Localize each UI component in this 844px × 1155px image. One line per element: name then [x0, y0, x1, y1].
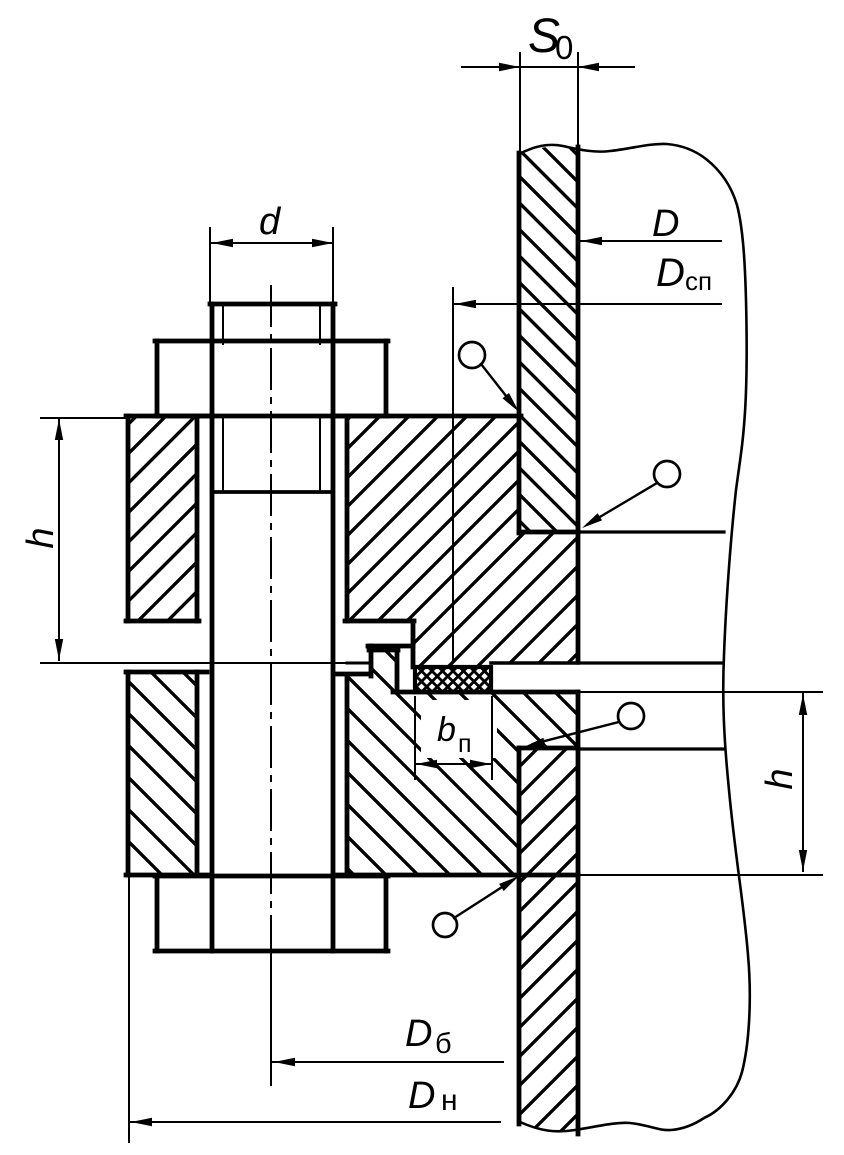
svg-text:b: b: [437, 711, 456, 749]
lower pipe wall outline: [517, 748, 522, 1124]
svg-text:сп: сп: [685, 266, 712, 296]
upper pipe wall outline: [517, 153, 522, 533]
svg-text:б: б: [435, 1028, 452, 1060]
break line (right): [519, 144, 750, 1118]
lower flange ring (left column), section hatch: [0, 457, 844, 1155]
dimension S0: [519, 53, 521, 150]
dimension h (lower flange): [802, 693, 804, 871]
bolt centerline: [270, 285, 272, 1085]
svg-text:п: п: [458, 730, 472, 758]
dimension b_p (gasket width): [421, 700, 497, 758]
upper nut: [155, 341, 160, 416]
svg-text:d: d: [259, 201, 282, 243]
svg-text:h: h: [20, 527, 62, 548]
svg-text:D: D: [656, 251, 685, 295]
callout balloon 4 (lower pipe-to-flange weld): [433, 913, 457, 937]
svg-text:h: h: [759, 768, 801, 789]
svg-text:D: D: [652, 203, 679, 245]
svg-text:0: 0: [555, 29, 573, 66]
lower nut: [155, 876, 160, 951]
dimension d: [209, 228, 211, 302]
callout balloon 1 (upper pipe-to-flange weld): [459, 342, 485, 368]
svg-text:D: D: [408, 1075, 435, 1117]
svg-text:н: н: [441, 1084, 458, 1117]
svg-text:D: D: [405, 1013, 432, 1055]
callout balloon 3 (pipe end seat, lower): [618, 703, 644, 729]
dimension h (upper flange): [41, 417, 128, 419]
stud thread lines: [222, 306, 224, 344]
dimension D: [580, 240, 721, 242]
stud (bolt): [212, 304, 333, 951]
dimension D_b (bolt circle): [270, 955, 272, 1085]
joint plane thin line across bolt hole: [41, 662, 347, 664]
lower flange outline: [126, 672, 131, 875]
joint plane line over stud: [41, 662, 347, 664]
callout balloon 2 (pipe end seat, upper): [654, 461, 680, 487]
dimension D_n (flange OD): [128, 875, 130, 1142]
dimension Dcp: [452, 288, 454, 662]
upper flange outline: [126, 416, 131, 621]
